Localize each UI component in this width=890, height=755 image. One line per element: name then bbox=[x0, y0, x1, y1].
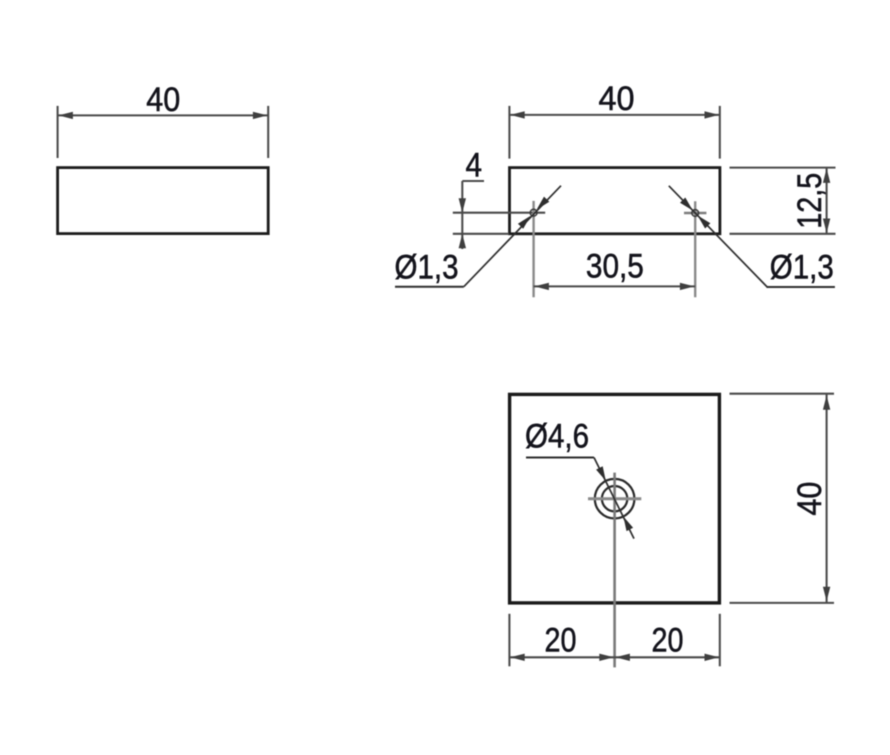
side view outline (top-left rectangle) bbox=[58, 168, 269, 234]
dimension 40 vertical line with arrows (bottom view) bbox=[823, 395, 830, 603]
svg-text:4: 4 bbox=[466, 147, 483, 185]
svg-text:40: 40 bbox=[791, 482, 829, 516]
dimension 40 extension line bottom right (bottom view) bbox=[730, 602, 835, 604]
centerline vertical of center hole / extension for 20,20 (bottom view) bbox=[613, 473, 616, 668]
dimension text 20 left (bottom view) bbox=[545, 622, 577, 660]
dimension 12,5 line with arrows (front view) bbox=[823, 168, 830, 234]
bottom view outline (square) bbox=[510, 394, 720, 603]
svg-text:40: 40 bbox=[146, 81, 180, 119]
dimension 4 vertical line with outside arrows (front view) bbox=[459, 181, 484, 249]
dimension text 40 (front view) bbox=[599, 80, 635, 118]
dimension 12,5 extension line top (front view) bbox=[730, 167, 836, 169]
dimension 20 extension line left (bottom view) bbox=[508, 614, 510, 667]
svg-text:Ø1,3: Ø1,3 bbox=[395, 249, 459, 287]
dimension text 20 right (bottom view) bbox=[652, 622, 684, 660]
dimension text 4 (front view) bbox=[466, 147, 483, 185]
dimension 4 bottom-edge extension line (front view) bbox=[453, 233, 509, 235]
right hole circle diam 1,3 (front view) bbox=[692, 210, 699, 217]
front view outline (top-right rectangle) bbox=[510, 168, 720, 234]
leader text diam 4,6 (bottom view) bbox=[525, 418, 589, 456]
svg-text:20: 20 bbox=[545, 622, 577, 660]
leader line diam 1,3 left hole (front view) bbox=[464, 186, 561, 287]
leader line diam 1,3 right hole (front view) bbox=[669, 186, 767, 287]
dimension 40 extension line right (side view) bbox=[267, 106, 269, 158]
dimension 30,5 line with arrows (front view) bbox=[534, 283, 696, 290]
centerline horizontal of left hole (front view) bbox=[453, 212, 545, 214]
svg-text:40: 40 bbox=[599, 80, 635, 118]
svg-text:20: 20 bbox=[652, 622, 684, 660]
dimension 40 extension line left (front view) bbox=[508, 106, 510, 159]
dimension 40 line with arrows (front view) bbox=[509, 111, 719, 118]
leader text diam 1,3 left (front view) bbox=[395, 249, 459, 287]
left hole circle diam 1,3 (front view) bbox=[530, 209, 537, 216]
dimension text 40 rotated (bottom view) bbox=[791, 482, 829, 516]
leader shoulder line diam 1,3 left (front view) bbox=[395, 286, 464, 288]
dimension 12,5 extension line bottom (front view) bbox=[730, 233, 836, 235]
dimension 20 extension line right (bottom view) bbox=[719, 614, 721, 667]
dimension 40 extension line top right (bottom view) bbox=[730, 393, 835, 395]
svg-text:Ø4,6: Ø4,6 bbox=[525, 418, 589, 456]
dimension 40 extension line left (side view) bbox=[57, 106, 59, 158]
dimension 40 line with arrows (side view) bbox=[58, 112, 269, 119]
svg-text:Ø1,3: Ø1,3 bbox=[770, 249, 834, 287]
leader shoulder line diam 1,3 right (front view) bbox=[767, 286, 835, 288]
centerline horizontal of right hole (front view) bbox=[684, 212, 706, 215]
svg-text:12,5: 12,5 bbox=[791, 173, 829, 229]
center hole circle diam 4,6 (bottom view) bbox=[602, 486, 627, 511]
dimension 20 20 line with arrows (bottom view) bbox=[509, 654, 719, 661]
leader line diam 4,6 through hole (bottom view) bbox=[594, 458, 634, 539]
leader shoulder line diam 4,6 (bottom view) bbox=[526, 457, 594, 459]
svg-text:30,5: 30,5 bbox=[586, 248, 644, 286]
centerline vertical of left hole / extension for 30,5 (front view) bbox=[532, 201, 534, 297]
center hole counterbore circle (bottom view) bbox=[595, 479, 635, 519]
centerline vertical of right hole / extension for 30,5 (front view) bbox=[694, 201, 696, 297]
dimension text 30,5 (front view) bbox=[586, 248, 644, 286]
dimension 40 extension line right (front view) bbox=[719, 106, 721, 159]
leader text diam 1,3 right (front view) bbox=[770, 249, 834, 287]
dimension text 40 (side view) bbox=[146, 81, 180, 119]
centerline horizontal of center hole (bottom view) bbox=[588, 497, 641, 500]
dimension text 12,5 rotated (front view) bbox=[791, 173, 829, 229]
